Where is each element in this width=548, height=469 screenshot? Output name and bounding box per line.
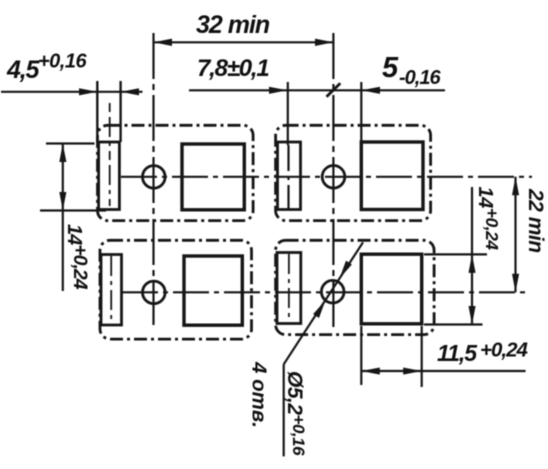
arrow 5 left-pointing [361,87,380,94]
hole top-left [143,166,166,189]
square pad top-left [182,144,244,210]
slot bottom-right [277,253,301,324]
hole bottom-right [321,280,344,303]
arrow 32min left [154,39,173,46]
arrow 14-left down [59,192,66,211]
dimension line 22 min [514,177,516,292]
dimension line 4,5 [1,91,143,93]
leader diagonal for hole callout [284,242,363,364]
svg-text:7,8±0,1: 7,8±0,1 [197,55,269,82]
extension line slot-right edge up [119,81,121,142]
dimension line 32 min [154,41,334,43]
centerline / extension line left column vertical [152,33,154,325]
square pad bottom-right [361,254,421,324]
extension line 14-left top [46,142,95,144]
slot center dashes bottom-right [288,254,290,322]
extension line 14-left bottom [40,209,106,211]
leader vertical tail [283,364,285,456]
arrow 11,5 left [361,368,380,375]
centerline / extension line right column vertical [332,33,334,331]
slash terminator at hole centerline [327,83,341,97]
svg-text:22 min: 22 min [524,188,547,253]
slot top-left [99,142,120,210]
hole top-right [322,166,345,189]
hole bottom-left [143,281,166,304]
extension line slot-center top-right unit [287,82,289,145]
chain outline bottom-left unit [100,240,252,339]
extension line 11,5 left [360,326,362,385]
arrow 7,8 right-pointing [269,87,287,94]
arrow 11,5 right [403,368,422,375]
square pad top-right [361,142,423,210]
svg-text:-0,16: -0,16 [399,67,441,89]
slot center dashes top-left [109,103,111,206]
dimension line 14-right [471,187,473,325]
arrow 14-right up [469,254,476,273]
chain outline top-left unit [98,125,254,220]
svg-text:+0,24: +0,24 [480,339,528,362]
svg-text:+0,16: +0,16 [38,51,87,73]
dimension line 11,5 [361,370,525,372]
extension line 14-right top [424,253,487,255]
extension line slot-left edge up [96,81,98,142]
svg-text:11,5: 11,5 [437,340,478,366]
leader arrow lower (points to hole) [313,300,325,318]
centerline row2 horizontal [122,291,527,293]
centerline row1 horizontal [121,176,532,178]
leader arrow upper (points to hole) [340,261,352,279]
arrow 32min right [315,39,333,46]
svg-text:4 отв.: 4 отв. [248,361,271,428]
chain outline bottom-right unit [276,240,435,334]
extension line square-left top-right unit [360,82,362,142]
slot center dashes bottom-left [110,256,112,323]
svg-text:4,5: 4,5 [6,56,40,84]
slot top-right [278,142,301,210]
svg-text:5: 5 [382,52,399,84]
arrow 4,5 left [79,88,97,95]
arrow 22min down [512,274,519,293]
extension line 11,5 right [421,326,423,387]
arrow 4,5 right [121,88,139,95]
svg-text:32 min: 32 min [196,11,270,39]
dimension line 7,8 / 5 [189,89,445,91]
arrow 22min up [512,177,519,196]
slot bottom-left [101,255,122,326]
slot center dashes top-right [287,145,289,209]
square pad bottom-left [184,256,242,325]
dimension line 14-left [62,144,64,292]
arrow 14-left up [59,144,66,163]
arrow 14-right down [469,306,476,325]
extension line 14-right bottom [424,323,483,325]
chain outline top-right unit [276,125,431,220]
